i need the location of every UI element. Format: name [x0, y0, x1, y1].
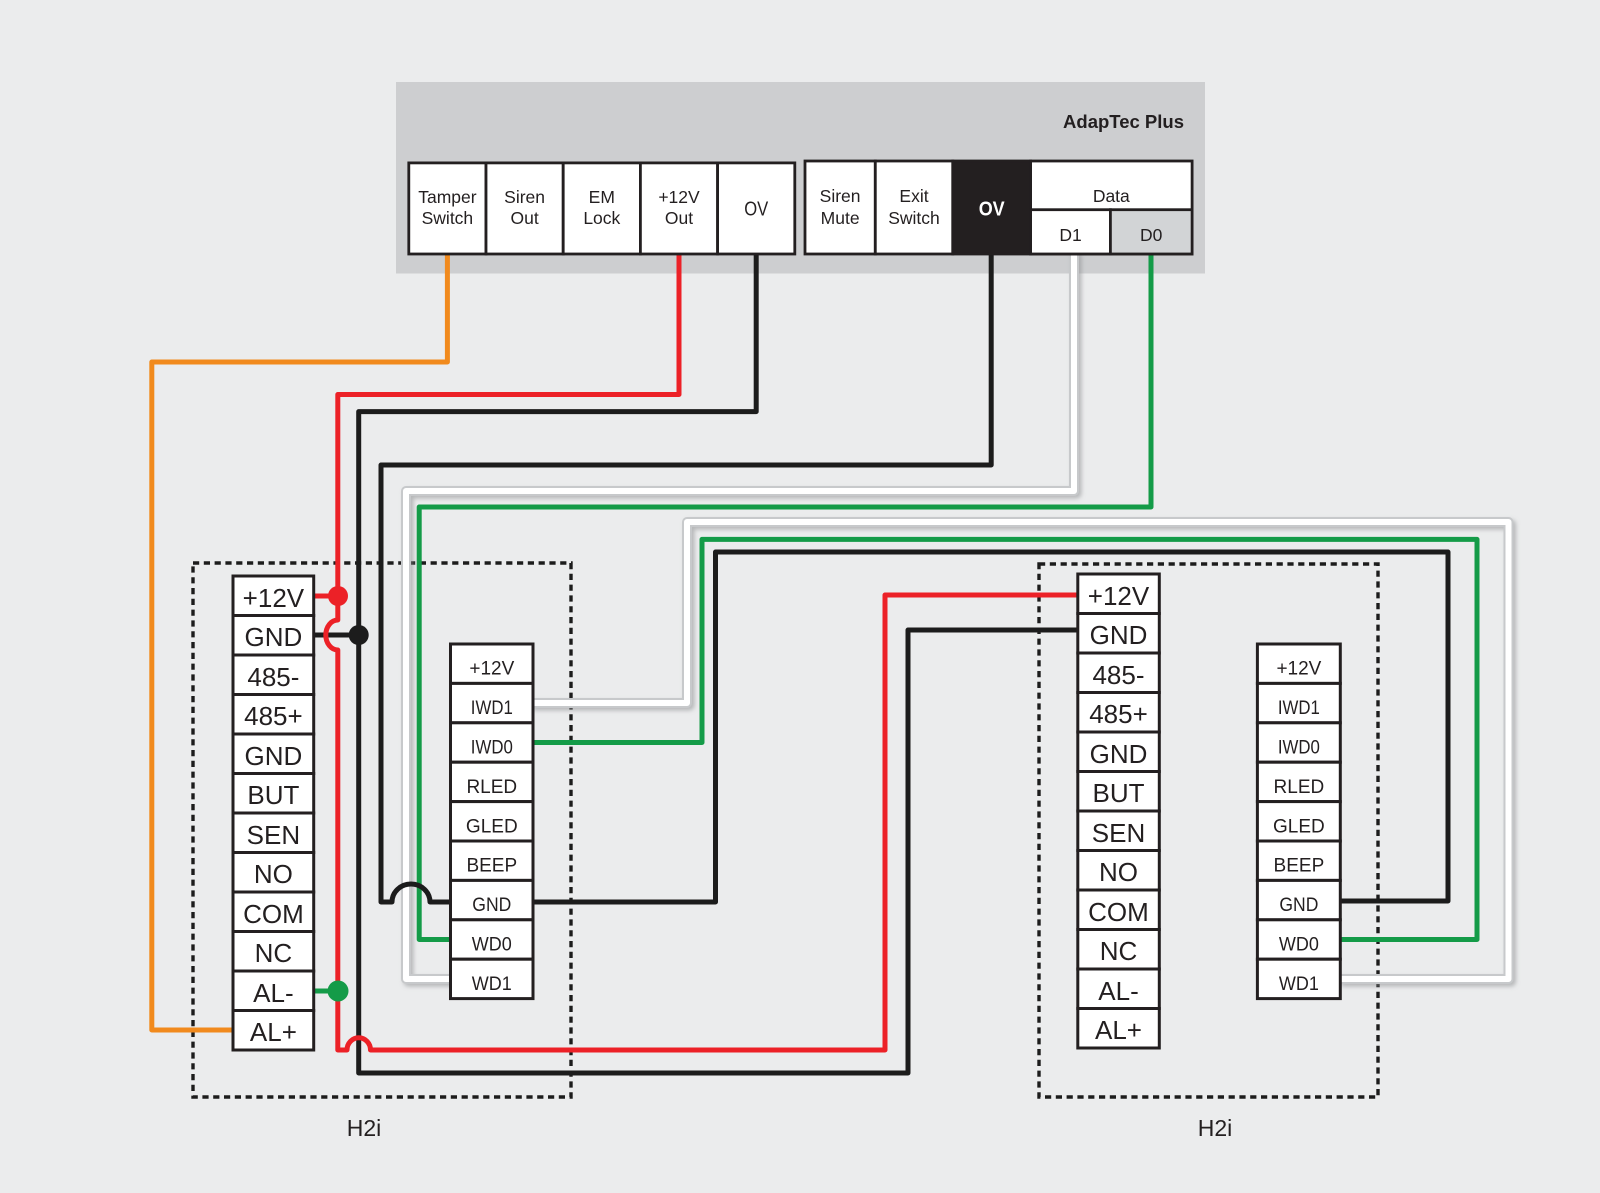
svg-text:485+: 485+ [1089, 699, 1148, 729]
svg-text:AL-: AL- [253, 978, 293, 1008]
svg-text:H2i: H2i [1198, 1115, 1233, 1141]
svg-text:Out: Out [510, 208, 538, 228]
svg-text:485-: 485- [1092, 660, 1144, 690]
svg-text:Siren: Siren [504, 187, 545, 207]
svg-text:WD1: WD1 [1279, 974, 1319, 995]
svg-text:IWD1: IWD1 [471, 698, 513, 719]
svg-text:WD0: WD0 [472, 935, 512, 956]
svg-text:BEEP: BEEP [1274, 856, 1325, 877]
svg-text:OV: OV [979, 199, 1006, 221]
svg-text:485-: 485- [247, 662, 299, 692]
svg-text:IWD1: IWD1 [1278, 698, 1320, 719]
svg-text:D0: D0 [1140, 225, 1163, 245]
svg-text:OV: OV [744, 198, 769, 220]
svg-text:GLED: GLED [466, 816, 518, 837]
svg-text:BEEP: BEEP [466, 856, 517, 877]
svg-text:GND: GND [245, 622, 303, 652]
svg-text:Data: Data [1093, 186, 1130, 206]
svg-text:GLED: GLED [1273, 816, 1325, 837]
svg-text:NC: NC [255, 938, 293, 968]
svg-text:AL+: AL+ [1095, 1015, 1142, 1045]
svg-text:AL-: AL- [1098, 976, 1138, 1006]
svg-text:Tamper: Tamper [418, 187, 477, 207]
svg-text:COM: COM [243, 899, 304, 929]
svg-text:GND: GND [245, 741, 303, 771]
svg-text:GND: GND [1279, 895, 1318, 916]
svg-text:WD1: WD1 [472, 974, 512, 995]
svg-text:NC: NC [1100, 936, 1138, 966]
svg-text:D1: D1 [1059, 225, 1081, 245]
svg-text:RLED: RLED [1274, 777, 1325, 798]
svg-text:+12V: +12V [1276, 659, 1321, 680]
svg-text:GND: GND [472, 895, 511, 916]
svg-text:Lock: Lock [583, 208, 620, 228]
svg-text:COM: COM [1088, 897, 1149, 927]
svg-text:GND: GND [1090, 620, 1148, 650]
svg-text:+12V: +12V [243, 583, 305, 613]
svg-text:H2i: H2i [347, 1115, 382, 1141]
svg-text:NO: NO [254, 859, 293, 889]
svg-text:+12V: +12V [658, 187, 700, 207]
svg-text:Exit: Exit [899, 186, 928, 206]
svg-text:NO: NO [1099, 857, 1138, 887]
svg-text:485+: 485+ [244, 701, 303, 731]
svg-text:Siren: Siren [820, 186, 861, 206]
svg-text:Out: Out [665, 208, 693, 228]
svg-text:IWD0: IWD0 [1278, 738, 1320, 759]
svg-text:Switch: Switch [888, 208, 940, 228]
svg-text:BUT: BUT [1093, 778, 1145, 808]
svg-text:+12V: +12V [1088, 581, 1150, 611]
svg-text:SEN: SEN [1092, 818, 1145, 848]
svg-text:+12V: +12V [469, 659, 514, 680]
svg-text:GND: GND [1090, 739, 1148, 769]
svg-text:EM: EM [589, 187, 615, 207]
svg-text:RLED: RLED [466, 777, 517, 798]
svg-text:Mute: Mute [821, 208, 860, 228]
svg-text:WD0: WD0 [1279, 935, 1319, 956]
svg-text:AdapTec Plus: AdapTec Plus [1063, 111, 1184, 132]
svg-text:IWD0: IWD0 [471, 738, 513, 759]
svg-text:AL+: AL+ [250, 1017, 297, 1047]
svg-text:Switch: Switch [422, 208, 474, 228]
svg-text:SEN: SEN [247, 820, 300, 850]
svg-text:BUT: BUT [247, 780, 299, 810]
